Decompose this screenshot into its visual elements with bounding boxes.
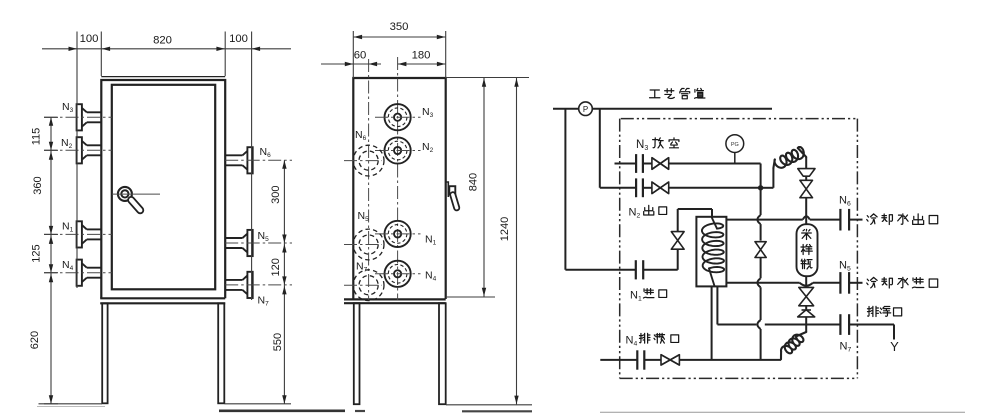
- svg-text:1240: 1240: [499, 217, 511, 241]
- svg-text:180: 180: [412, 50, 431, 62]
- svg-text:120: 120: [270, 258, 282, 276]
- svg-text:PG: PG: [731, 142, 739, 148]
- svg-text:350: 350: [390, 21, 409, 33]
- svg-text:550: 550: [272, 333, 284, 351]
- svg-text:115: 115: [31, 128, 43, 146]
- svg-text:360: 360: [32, 176, 44, 194]
- svg-text:840: 840: [468, 173, 480, 191]
- svg-text:P: P: [583, 105, 588, 114]
- svg-text:820: 820: [153, 35, 172, 47]
- svg-text:620: 620: [29, 331, 41, 349]
- svg-text:300: 300: [270, 186, 282, 204]
- svg-text:125: 125: [31, 244, 43, 262]
- svg-text:60: 60: [354, 50, 367, 62]
- svg-text:100: 100: [80, 33, 99, 45]
- svg-text:Y: Y: [890, 339, 899, 354]
- svg-text:100: 100: [229, 33, 248, 45]
